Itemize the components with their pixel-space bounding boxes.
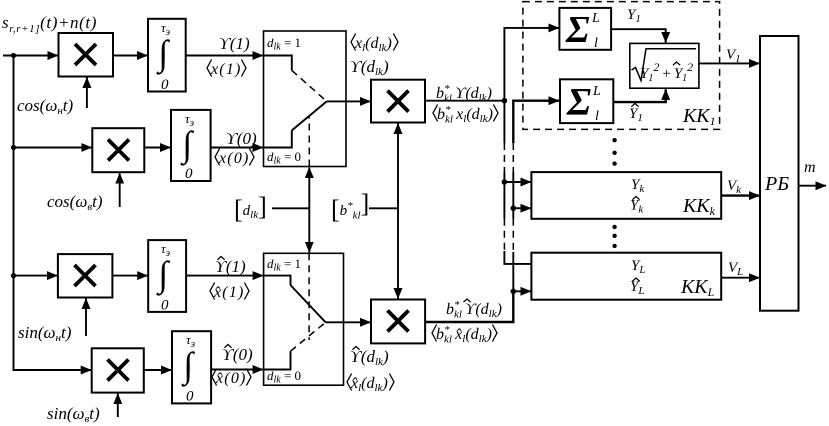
svg-text:L: L	[591, 11, 600, 26]
wire KKL output VL	[721, 277, 759, 279]
wire left bus vertical	[14, 56, 92, 371]
wire carrier4 arrow into M4	[117, 394, 119, 417]
wire SW2 output to M6	[326, 321, 371, 323]
svg-text:sin(ωвt): sin(ωвt)	[47, 404, 100, 425]
svg-text:x(0): x(0)	[218, 150, 250, 167]
KKk box	[531, 172, 721, 219]
svg-text:dlk = 1: dlk = 1	[267, 35, 301, 53]
svg-text:0: 0	[186, 389, 194, 405]
wire input row1	[3, 55, 58, 57]
wire bus2 dashed gap2	[512, 219, 514, 252]
node input junction	[11, 53, 16, 58]
svg-text:x(1): x(1)	[210, 61, 242, 78]
wire bus1 down segment solid	[503, 101, 505, 143]
wire KKL input2	[513, 290, 531, 292]
wire bus2 solid mid	[512, 172, 514, 219]
svg-text:dlk = 0: dlk = 0	[267, 149, 301, 167]
wire SW2 inner input0	[264, 351, 291, 369]
svg-text:Σ: Σ	[565, 9, 590, 51]
svg-text:РБ: РБ	[764, 173, 789, 195]
node KKk input1 junction	[502, 179, 508, 185]
wire bus1 up to S1	[504, 28, 559, 101]
svg-text:cos(ωвt): cos(ωвt)	[47, 192, 103, 213]
wire carrier2 arrow into M2	[119, 173, 121, 207]
wire SW2 solid arm upper	[291, 285, 326, 322]
label <x(1)>	[207, 60, 246, 79]
wire SW1 inner input0	[264, 130, 292, 147]
wire I4 to SW2 input0	[211, 369, 263, 371]
svg-text:ϒ(dlk): ϒ(dlk)	[350, 57, 389, 78]
svg-text:ϒ(1): ϒ(1)	[215, 257, 246, 276]
wire row3 to M3	[14, 275, 58, 277]
KK1 dashed box	[523, 2, 720, 130]
wire sqrt to RB (V1)	[699, 62, 760, 64]
svg-text:l: l	[595, 109, 599, 124]
label Yhat(0)	[222, 345, 253, 365]
svg-text:L: L	[592, 84, 601, 99]
wire b_kl to vertical	[369, 207, 398, 209]
label YLhat	[630, 278, 644, 297]
svg-text:m: m	[804, 159, 816, 176]
multiplier M4	[92, 348, 144, 392]
wire KKk output Vk	[721, 194, 759, 196]
wire SW2 dashed arm lower	[291, 322, 326, 351]
dots between KKk and KKL	[612, 225, 616, 248]
wire S1 to sqrt	[611, 29, 666, 42]
wire control down into SW2	[308, 208, 310, 252]
switch SW1 box	[264, 31, 347, 167]
node row3 junction	[11, 273, 16, 278]
multiplier M2	[92, 128, 144, 172]
label <xhat(1)>	[210, 283, 249, 302]
wire bus1 dashed gap1	[503, 143, 505, 172]
svg-text:0: 0	[161, 298, 169, 314]
integrator I2	[171, 110, 211, 182]
label Yhat(d_lk) below SW2	[350, 347, 389, 369]
svg-text:Σ: Σ	[566, 81, 591, 124]
wire M6 output up bus2	[425, 291, 513, 322]
multiplier M1	[59, 33, 114, 77]
svg-text:ϒ(dlk): ϒ(dlk)	[350, 347, 389, 368]
label <x(0)>	[215, 149, 254, 168]
label <xhat(0)>	[212, 369, 251, 388]
wire row2 to M2	[14, 147, 92, 149]
integrator I4	[172, 331, 211, 404]
svg-text:l: l	[594, 36, 598, 51]
wire bus2 solid to KKL	[512, 252, 514, 291]
multiplier M6	[371, 300, 425, 344]
svg-text:ϒ(0): ϒ(0)	[226, 129, 257, 148]
wire SW2 control dashed inside	[308, 253, 310, 340]
multiplier M3	[58, 254, 113, 297]
wire SW1 dashed arm upper	[292, 70, 327, 101]
svg-text:0: 0	[161, 77, 169, 93]
multiplier M5	[371, 80, 425, 123]
label b*_kl Yhat(d_lk)	[446, 299, 502, 321]
label Ykhat	[630, 197, 644, 216]
svg-text:cos(ωнt): cos(ωнt)	[17, 96, 74, 117]
wire bus1 dashed gap2	[503, 219, 505, 251]
sqrt block	[630, 43, 699, 88]
node M5 output junction	[502, 98, 508, 104]
wire d_lk to control line	[272, 207, 309, 209]
label <b*_kl xhat_l(d_lk)>	[432, 324, 497, 346]
svg-text:dlk = 0: dlk = 0	[267, 368, 301, 386]
integrator I3	[148, 240, 186, 313]
wire carrier3 arrow into M3	[85, 299, 87, 337]
wire M5 output to bus junction	[425, 100, 504, 102]
wire KKk input1	[504, 181, 531, 183]
wire bus1 to KKL top input	[504, 251, 531, 264]
summator S1	[559, 8, 611, 51]
svg-text:0: 0	[185, 166, 193, 182]
label Yhat(1)	[215, 257, 246, 277]
label <xhat_l(d_lk)> below SW2	[347, 374, 394, 395]
label Y1hat	[629, 104, 643, 125]
node KKL input2 junction	[511, 289, 517, 295]
dots between KK1 and KKk	[612, 138, 616, 166]
wire I3 to SW2 input1	[186, 275, 263, 277]
svg-text:ϒ(1): ϒ(1)	[219, 34, 250, 53]
wire M2 to I2	[144, 147, 170, 149]
wire bus2 dashed gap1	[512, 143, 514, 172]
wire SW1 output to M5	[327, 100, 371, 102]
svg-text:x̂(1): x̂(1)	[213, 284, 245, 301]
wire b down into M6	[397, 208, 399, 298]
svg-text:x̂l(dlk): x̂l(dlk)	[350, 375, 388, 394]
node row2 junction	[11, 145, 16, 150]
wire S2 to sqrt	[613, 89, 665, 102]
svg-text:xl(dlk): xl(dlk)	[354, 35, 392, 54]
svg-text:ϒ(0): ϒ(0)	[222, 345, 253, 364]
wire bus1 solid mid	[503, 172, 505, 219]
integrator I1	[148, 19, 186, 93]
wire SW1 solid arm lower	[292, 101, 327, 130]
svg-text:sin(ωнt): sin(ωнt)	[18, 323, 72, 344]
label <b*_kl x_l(d_lk)>	[433, 104, 498, 126]
wire SW1 inner input1	[264, 56, 292, 71]
wire SW2 inner input1	[264, 276, 291, 286]
svg-text:x̂(0): x̂(0)	[215, 370, 247, 387]
node KKk input2 junction	[511, 205, 517, 211]
wire M3 to I3	[112, 275, 147, 277]
RB decision block	[760, 36, 799, 311]
wire M4 to I4	[144, 369, 172, 371]
summator S2	[560, 79, 613, 124]
KKL box	[531, 253, 721, 300]
wire I1 to SW1 input1	[186, 55, 263, 57]
wire b up into M5	[397, 124, 399, 209]
wire I2 to SW1 input0	[211, 147, 263, 149]
label <x_l(d_lk)>	[351, 34, 398, 55]
wire M1 to I1	[113, 55, 148, 57]
wire control up into SW1	[308, 168, 310, 209]
wire KKk input2	[513, 207, 531, 209]
svg-text:dlk = 1: dlk = 1	[267, 256, 301, 274]
wire bus2 into S2	[513, 101, 559, 143]
wire carrier1 arrow into M1	[86, 78, 88, 109]
wire SW1 control dashed inside	[308, 117, 310, 167]
switch SW2 box	[264, 253, 344, 385]
wire RB output m	[799, 185, 827, 187]
